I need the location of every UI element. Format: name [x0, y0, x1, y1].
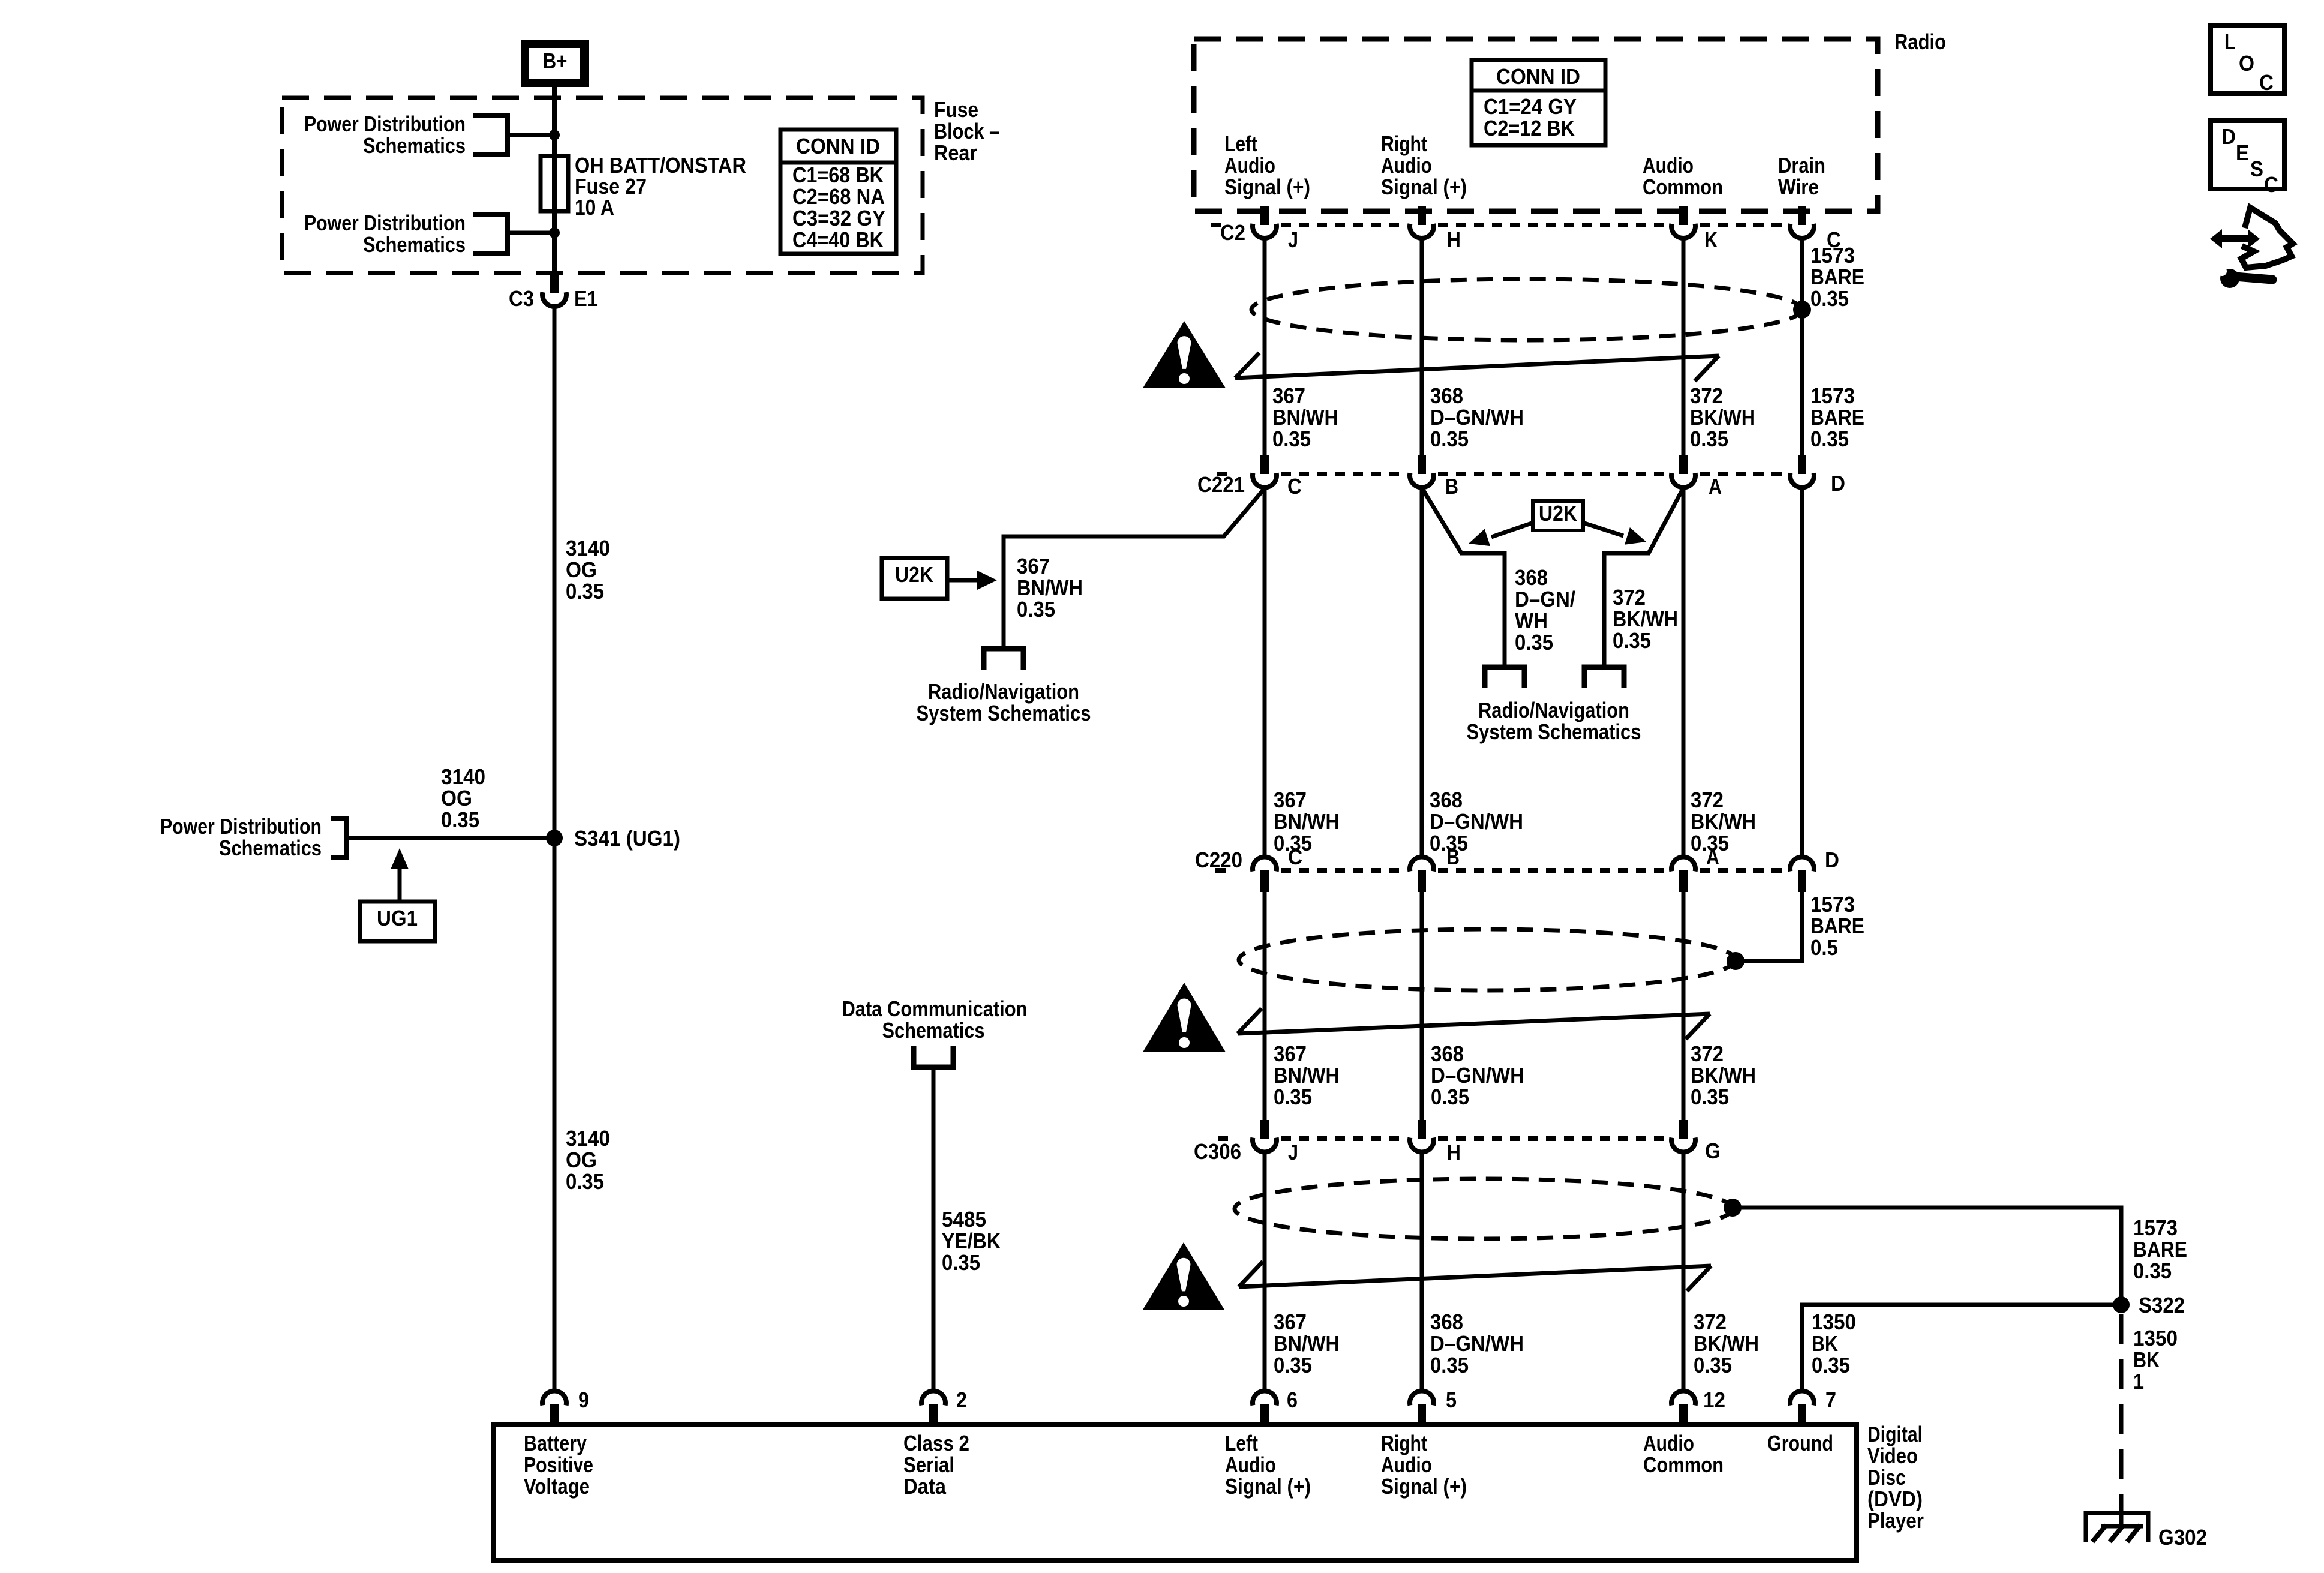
- node shield 3: [1724, 1199, 1742, 1217]
- splice S322: [2113, 1296, 2130, 1313]
- U2K arrow left assembly: [948, 578, 978, 583]
- svg-text:Positive: Positive: [524, 1452, 593, 1477]
- svg-text:L: L: [2224, 29, 2235, 54]
- svg-text:YE/BK: YE/BK: [942, 1229, 1001, 1253]
- svg-text:Rear: Rear: [934, 140, 977, 165]
- wire 3140 OG upper: [553, 307, 557, 838]
- svg-text:D–GN/: D–GN/: [1515, 587, 1575, 611]
- pin A (C221): [1679, 455, 1688, 474]
- svg-text:3140: 3140: [441, 764, 485, 789]
- twisted pair symbol 2: [1238, 1014, 1710, 1034]
- pin J (C2): [1260, 206, 1269, 225]
- svg-text:5485: 5485: [942, 1207, 986, 1232]
- pin C (C221): [1260, 455, 1269, 474]
- svg-text:BN/WH: BN/WH: [1274, 809, 1340, 834]
- node tap upper: [549, 130, 560, 140]
- svg-text:1: 1: [2133, 1369, 2144, 1394]
- wire tap 367 to radio/nav: [1004, 488, 1265, 649]
- pin C (C2): [1798, 206, 1806, 225]
- svg-text:0.35: 0.35: [2133, 1259, 2172, 1283]
- svg-text:BARE: BARE: [1810, 265, 1864, 289]
- svg-text:0.35: 0.35: [1613, 628, 1651, 653]
- wires C306 to DVD: [1263, 1152, 1267, 1391]
- connector C3/E1: [550, 273, 559, 293]
- svg-text:D–GN/WH: D–GN/WH: [1430, 1331, 1524, 1356]
- svg-text:C2=68 NA: C2=68 NA: [792, 184, 885, 209]
- pin K (C2): [1679, 206, 1688, 225]
- svg-text:Block –: Block –: [934, 119, 999, 143]
- warning triangle 3: [1143, 1242, 1225, 1310]
- svg-text:O: O: [2239, 51, 2254, 76]
- pin G (C306): [1679, 1120, 1688, 1139]
- wire through fuse: [552, 157, 557, 273]
- svg-text:C3: C3: [509, 286, 534, 311]
- svg-text:368: 368: [1430, 788, 1463, 812]
- svg-text:J: J: [1288, 1140, 1298, 1164]
- svg-text:7: 7: [1825, 1388, 1836, 1412]
- svg-text:6: 6: [1287, 1388, 1298, 1412]
- svg-text:System Schematics: System Schematics: [917, 701, 1091, 725]
- shield ellipse 1: [1251, 279, 1802, 340]
- splice S341: [546, 830, 563, 846]
- connector ID table (fuse block): [780, 130, 896, 254]
- svg-text:0.35: 0.35: [1274, 1085, 1312, 1109]
- svg-text:Class 2: Class 2: [903, 1431, 969, 1455]
- svg-text:2: 2: [956, 1388, 967, 1412]
- svg-text:OG: OG: [441, 786, 472, 810]
- svg-text:C2=12 BK: C2=12 BK: [1484, 116, 1575, 140]
- DESC box: [2211, 121, 2284, 189]
- UG1 box: [360, 902, 435, 941]
- svg-text:Right: Right: [1381, 1431, 1427, 1455]
- svg-text:Serial: Serial: [903, 1452, 954, 1477]
- svg-text:Common: Common: [1643, 175, 1723, 199]
- svg-text:368: 368: [1431, 1041, 1464, 1066]
- svg-text:Audio: Audio: [1381, 153, 1432, 178]
- svg-text:U2K: U2K: [1539, 501, 1577, 526]
- pin 7 (DVD): [1790, 1391, 1814, 1406]
- svg-text:B+: B+: [543, 49, 568, 73]
- svg-text:368: 368: [1430, 1310, 1463, 1334]
- radio dashed box: [1194, 39, 1878, 211]
- svg-text:372: 372: [1694, 1310, 1727, 1334]
- svg-text:D: D: [2221, 124, 2236, 149]
- pin 6 (DVD): [1253, 1391, 1277, 1406]
- pin H (C306): [1418, 1120, 1426, 1139]
- svg-text:Signal (+): Signal (+): [1381, 175, 1467, 199]
- svg-text:S322: S322: [2139, 1293, 2185, 1317]
- U2K arrow to 368: [1491, 523, 1532, 537]
- shield ellipse 2: [1239, 929, 1736, 990]
- connector row C2 dashes: [1211, 223, 1221, 227]
- svg-text:H: H: [1446, 1140, 1461, 1164]
- svg-text:BARE: BARE: [2133, 1237, 2187, 1262]
- svg-text:(DVD): (DVD): [1867, 1487, 1923, 1511]
- svg-text:367: 367: [1272, 383, 1305, 408]
- svg-text:C221: C221: [1197, 472, 1245, 497]
- svg-text:0.35: 0.35: [1272, 427, 1311, 451]
- wire tap upper: [508, 133, 554, 137]
- stub to data communication: [914, 1046, 953, 1067]
- bracket upper: [473, 116, 508, 154]
- connector row C221 dashes: [1217, 472, 1227, 476]
- svg-text:0.35: 0.35: [1810, 427, 1849, 451]
- pin 2 connector: [921, 1391, 945, 1406]
- fuse block - rear dashed box: [282, 98, 923, 273]
- svg-text:A: A: [1709, 474, 1722, 499]
- svg-text:Audio: Audio: [1643, 153, 1694, 178]
- svg-text:Common: Common: [1643, 1452, 1724, 1477]
- power symbol B+: [521, 40, 589, 87]
- connector row C306 dashes: [1218, 1136, 1228, 1141]
- svg-text:Signal (+): Signal (+): [1381, 1474, 1467, 1499]
- svg-text:BK/WH: BK/WH: [1690, 405, 1755, 430]
- svg-text:Data: Data: [903, 1474, 947, 1499]
- twisted pair symbol 1: [1235, 356, 1719, 378]
- svg-text:0.5: 0.5: [1810, 935, 1838, 960]
- pin D (C221): [1798, 455, 1806, 474]
- svg-text:3140: 3140: [566, 536, 610, 560]
- svg-text:0.35: 0.35: [1431, 1085, 1469, 1109]
- svg-text:9: 9: [578, 1388, 589, 1412]
- svg-text:Disc: Disc: [1867, 1465, 1906, 1490]
- wires C220 to C306: [1263, 892, 1267, 1120]
- svg-text:Audio: Audio: [1643, 1431, 1694, 1455]
- pin J (C306): [1260, 1120, 1269, 1139]
- svg-text:367: 367: [1274, 1310, 1307, 1334]
- svg-text:D–GN/WH: D–GN/WH: [1431, 1063, 1524, 1088]
- svg-text:0.35: 0.35: [1812, 1353, 1850, 1377]
- wire 1350 BK to pin 7: [1802, 1305, 2121, 1391]
- svg-text:0.35: 0.35: [1694, 1353, 1732, 1377]
- svg-text:S341 (UG1): S341 (UG1): [574, 826, 680, 851]
- svg-text:0.35: 0.35: [1430, 1353, 1469, 1377]
- svg-text:BK: BK: [1812, 1331, 1838, 1356]
- svg-text:Left: Left: [1225, 1431, 1258, 1455]
- stub radio/nav mid-right: [1584, 667, 1624, 688]
- pin D (C220): [1790, 857, 1814, 872]
- svg-text:367: 367: [1017, 554, 1050, 578]
- svg-text:Schematics: Schematics: [363, 232, 466, 257]
- svg-text:368: 368: [1515, 565, 1548, 590]
- svg-text:C: C: [1287, 474, 1302, 499]
- svg-text:Schematics: Schematics: [363, 133, 466, 158]
- svg-text:Audio: Audio: [1381, 1452, 1432, 1477]
- svg-text:0.35: 0.35: [1430, 427, 1469, 451]
- LOC box: [2211, 25, 2284, 94]
- svg-text:Radio/Navigation: Radio/Navigation: [928, 679, 1079, 704]
- svg-text:12: 12: [1703, 1388, 1725, 1412]
- bracket S341: [331, 819, 347, 857]
- svg-text:BK/WH: BK/WH: [1694, 1331, 1759, 1356]
- wire tap lower: [508, 231, 554, 235]
- svg-text:C3=32 GY: C3=32 GY: [792, 206, 885, 230]
- svg-text:C: C: [2259, 70, 2274, 95]
- wire 1350 BK 1 dashed to ground: [2119, 1314, 2124, 1525]
- svg-text:C1=68 BK: C1=68 BK: [792, 163, 884, 187]
- svg-text:BK/WH: BK/WH: [1691, 1063, 1756, 1088]
- svg-text:Fuse: Fuse: [934, 97, 978, 122]
- svg-text:Right: Right: [1381, 131, 1427, 156]
- U2K box left: [882, 558, 947, 599]
- svg-text:Radio/Navigation: Radio/Navigation: [1478, 698, 1629, 722]
- svg-text:BARE: BARE: [1810, 914, 1864, 938]
- pin C (C220): [1253, 857, 1277, 872]
- svg-text:C4=40 BK: C4=40 BK: [792, 227, 884, 252]
- svg-text:G302: G302: [2158, 1525, 2207, 1550]
- svg-text:1573: 1573: [1810, 892, 1855, 917]
- svg-text:C1=24 GY: C1=24 GY: [1484, 94, 1577, 119]
- svg-text:Schematics: Schematics: [219, 836, 322, 860]
- pin A (C220): [1671, 857, 1695, 872]
- svg-text:5: 5: [1446, 1388, 1457, 1412]
- svg-text:C2: C2: [1220, 220, 1245, 245]
- svg-text:Digital: Digital: [1867, 1422, 1923, 1446]
- svg-text:Radio: Radio: [1894, 29, 1946, 54]
- svg-text:0.35: 0.35: [1810, 286, 1849, 311]
- svg-text:10 A: 10 A: [575, 195, 614, 220]
- svg-text:3140: 3140: [566, 1126, 610, 1151]
- svg-text:S: S: [2250, 157, 2263, 181]
- svg-text:Signal (+): Signal (+): [1225, 1474, 1311, 1499]
- pin 9 connector: [542, 1391, 566, 1406]
- svg-text:Wire: Wire: [1778, 175, 1819, 199]
- node tap lower: [549, 227, 560, 238]
- node shield 1 to drain: [1793, 301, 1811, 319]
- U2K box right: [1533, 501, 1583, 530]
- svg-text:UG1: UG1: [377, 906, 418, 930]
- wire B+ to fuse block: [552, 87, 557, 157]
- svg-text:B: B: [1446, 845, 1460, 869]
- svg-text:BN/WH: BN/WH: [1274, 1331, 1340, 1356]
- svg-text:1573: 1573: [2133, 1215, 2178, 1240]
- svg-text:CONN ID: CONN ID: [1496, 64, 1580, 89]
- svg-text:0.35: 0.35: [566, 1169, 604, 1194]
- svg-text:0.35: 0.35: [1691, 1085, 1729, 1109]
- svg-text:0.35: 0.35: [1274, 1353, 1312, 1377]
- bracket lower: [473, 215, 508, 253]
- UG1 arrow: [398, 869, 402, 903]
- node shield 2: [1727, 952, 1744, 970]
- DVD player box: [494, 1424, 1857, 1560]
- svg-text:Signal (+): Signal (+): [1224, 175, 1310, 199]
- svg-text:BN/WH: BN/WH: [1017, 575, 1083, 600]
- ground G302: [2086, 1513, 2148, 1542]
- svg-text:A: A: [1706, 845, 1719, 869]
- twisted pair symbol 3: [1239, 1266, 1711, 1287]
- wires C221 to C220: [1263, 487, 1267, 857]
- shield ellipse 3: [1235, 1179, 1733, 1239]
- pin 5 (DVD): [1410, 1391, 1434, 1406]
- svg-text:Video: Video: [1867, 1443, 1918, 1468]
- svg-text:System Schematics: System Schematics: [1467, 719, 1641, 744]
- wire tap 368: [1422, 488, 1505, 667]
- hand/arrow/wrench icon: [2220, 235, 2250, 242]
- svg-text:1573: 1573: [1810, 383, 1855, 408]
- svg-text:368: 368: [1430, 383, 1463, 408]
- svg-text:C: C: [2264, 172, 2278, 197]
- svg-text:E: E: [2236, 140, 2249, 165]
- svg-text:Data Communication: Data Communication: [842, 996, 1028, 1021]
- pin B (C221): [1418, 455, 1426, 474]
- svg-text:Battery: Battery: [524, 1431, 587, 1455]
- svg-text:372: 372: [1690, 383, 1723, 408]
- svg-text:Power Distribution: Power Distribution: [304, 211, 466, 235]
- svg-text:K: K: [1704, 227, 1718, 252]
- svg-text:BK: BK: [2133, 1347, 2160, 1372]
- svg-text:0.35: 0.35: [942, 1250, 980, 1275]
- stub radio/nav mid-left: [1485, 667, 1524, 688]
- wire 3140 OG lower: [553, 838, 557, 1391]
- svg-text:C220: C220: [1195, 848, 1242, 872]
- pin B (C220): [1410, 857, 1434, 872]
- svg-text:1573: 1573: [1810, 243, 1855, 268]
- svg-text:E1: E1: [574, 286, 598, 311]
- svg-text:D–GN/WH: D–GN/WH: [1430, 809, 1523, 834]
- wire shield 3 to S322: [1733, 1208, 2121, 1305]
- warning triangle 2: [1143, 983, 1226, 1052]
- svg-text:BK/WH: BK/WH: [1613, 607, 1678, 631]
- svg-text:367: 367: [1274, 788, 1307, 812]
- warning triangle 1: [1143, 321, 1226, 388]
- svg-text:0.35: 0.35: [566, 579, 604, 604]
- svg-text:D: D: [1831, 471, 1845, 496]
- wire tap S341: [347, 836, 554, 840]
- U2K arrow to 372: [1584, 523, 1623, 536]
- svg-text:1350: 1350: [1812, 1310, 1856, 1334]
- svg-text:0.35: 0.35: [441, 807, 479, 832]
- svg-text:D: D: [1825, 848, 1839, 872]
- svg-text:BN/WH: BN/WH: [1274, 1063, 1340, 1088]
- svg-text:OG: OG: [566, 557, 597, 582]
- svg-text:0.35: 0.35: [1017, 597, 1055, 622]
- pin 12 (DVD): [1671, 1391, 1695, 1406]
- wire tap 372: [1604, 488, 1683, 667]
- svg-text:372: 372: [1613, 585, 1646, 610]
- svg-text:0.35: 0.35: [1690, 427, 1728, 451]
- svg-text:C: C: [1288, 845, 1302, 869]
- svg-text:Power Distribution: Power Distribution: [160, 814, 322, 839]
- svg-text:C306: C306: [1194, 1139, 1241, 1164]
- svg-text:G: G: [1705, 1139, 1721, 1163]
- wire drain C220-D to shield 2: [1736, 892, 1802, 961]
- svg-text:1350: 1350: [2133, 1326, 2178, 1350]
- svg-text:Power Distribution: Power Distribution: [304, 112, 466, 136]
- svg-text:Schematics: Schematics: [882, 1018, 985, 1043]
- svg-text:WH: WH: [1515, 608, 1548, 633]
- svg-text:Drain: Drain: [1778, 153, 1825, 178]
- svg-text:BN/WH: BN/WH: [1272, 405, 1338, 430]
- svg-text:BK/WH: BK/WH: [1691, 809, 1756, 834]
- svg-text:BARE: BARE: [1810, 405, 1864, 430]
- svg-text:D–GN/WH: D–GN/WH: [1430, 405, 1524, 430]
- svg-text:Audio: Audio: [1224, 153, 1275, 178]
- svg-text:372: 372: [1691, 1041, 1724, 1066]
- svg-text:372: 372: [1691, 788, 1724, 812]
- connector ID table (radio): [1472, 60, 1605, 145]
- svg-text:Left: Left: [1224, 131, 1257, 156]
- svg-text:OG: OG: [566, 1148, 597, 1172]
- svg-text:J: J: [1288, 227, 1298, 252]
- wires C2 to C221: [1263, 238, 1267, 455]
- wire 5485 YE/BK: [932, 1067, 936, 1391]
- pin H (C2): [1418, 206, 1426, 225]
- svg-text:Audio: Audio: [1225, 1452, 1276, 1477]
- svg-text:0.35: 0.35: [1515, 630, 1553, 655]
- connector row C220 dashes: [1215, 868, 1226, 873]
- svg-text:B: B: [1445, 474, 1458, 499]
- svg-text:H: H: [1446, 227, 1461, 252]
- stub radio/nav left: [984, 649, 1023, 670]
- svg-text:U2K: U2K: [895, 562, 933, 587]
- svg-text:CONN ID: CONN ID: [796, 134, 880, 158]
- svg-text:Ground: Ground: [1767, 1431, 1833, 1455]
- svg-text:Player: Player: [1867, 1508, 1924, 1533]
- svg-text:367: 367: [1274, 1041, 1307, 1066]
- svg-text:Voltage: Voltage: [524, 1474, 590, 1499]
- fuse F27: [541, 156, 568, 211]
